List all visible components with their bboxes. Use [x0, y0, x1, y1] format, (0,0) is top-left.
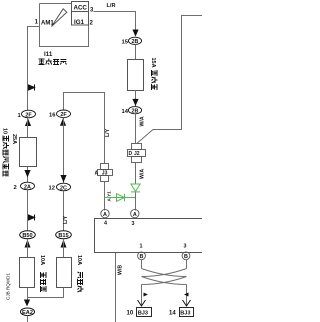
- up arrow into 1(2F): [25, 119, 31, 127]
- svg-text:CJB RQWD1: CJB RQWD1: [6, 273, 11, 300]
- ignition switch I11 outer box: [40, 4, 89, 47]
- direction flag right: [144, 293, 149, 297]
- wire 1(2F) to fuse: [27, 118, 29, 137]
- svg-text:D: D: [129, 151, 133, 157]
- svg-text:L/Y: L/Y: [63, 215, 69, 224]
- svg-text:W/A: W/A: [140, 116, 146, 126]
- svg-text:A/Y1: A/Y1: [107, 191, 112, 202]
- down arrow into 12(2C): [60, 175, 66, 183]
- fuse label 10A 室内灯: [76, 255, 84, 292]
- wire EA2 to bottom edge: [27, 316, 29, 322]
- fuse label 10A 主电源: [39, 255, 46, 292]
- wire A J3 to node A pin4: [104, 182, 106, 211]
- fuse 10A main box: [20, 258, 35, 288]
- svg-text:1: 1: [35, 20, 39, 26]
- svg-text:J2: J2: [134, 151, 140, 157]
- fuse 25A ignition box: [20, 138, 37, 167]
- svg-text:EA2: EA2: [22, 310, 33, 316]
- wire B50 to fuse: [27, 239, 29, 258]
- wire AM1 to 1(2F): [28, 27, 40, 111]
- diode D1 horizontal green: [105, 194, 136, 202]
- down arrow into 14(2B): [132, 99, 138, 106]
- svg-text:3: 3: [184, 244, 187, 250]
- svg-text:L/Y: L/Y: [105, 128, 111, 137]
- svg-text:A: A: [103, 212, 107, 218]
- wire fuse to 14(2B): [135, 90, 137, 106]
- svg-text:IG1: IG1: [74, 19, 85, 26]
- splice B15: [56, 231, 72, 239]
- svg-text:1: 1: [18, 113, 22, 119]
- down arrow into EA2: [24, 300, 30, 307]
- arrowhead into 10 BJ3: [138, 300, 146, 306]
- svg-text:1: 1: [140, 244, 143, 250]
- connector 2(2A): [14, 182, 35, 191]
- wire column3 rail to A J3: [104, 93, 106, 164]
- svg-text:14: 14: [122, 109, 129, 115]
- diode D2 vertical green: [131, 184, 140, 192]
- wire 15(2B) to fuse: [135, 44, 137, 59]
- svg-text:4: 4: [104, 221, 107, 227]
- svg-text:AM1: AM1: [41, 21, 54, 27]
- splice B50: [20, 231, 36, 239]
- svg-text:BJ3: BJ3: [138, 311, 148, 317]
- connector 12(2C): [49, 183, 71, 191]
- wire fuse to EA2 junction: [27, 288, 29, 301]
- connector 16(2F): [49, 110, 71, 119]
- svg-text:10: 10: [127, 311, 134, 317]
- connector D J2: [128, 144, 146, 163]
- wire B15 to fuse: [63, 239, 65, 258]
- svg-text:B50: B50: [22, 233, 32, 239]
- rail wire 16(2F) to column 3: [64, 93, 106, 111]
- fuse 10A room lamp box: [57, 258, 72, 288]
- ground EA2: [21, 308, 35, 316]
- svg-text:2: 2: [14, 185, 17, 191]
- connector 15(2B): [122, 37, 142, 45]
- wire fuse to 2(2A) with down arrow: [27, 167, 29, 182]
- svg-text:10A: 10A: [39, 255, 45, 265]
- svg-text:10A: 10A: [76, 255, 82, 265]
- node A pin 3 circle: [131, 209, 139, 217]
- svg-text:25A: 25A: [11, 134, 17, 144]
- svg-text:3: 3: [90, 8, 94, 14]
- svg-text:2F: 2F: [25, 112, 32, 118]
- svg-text:ACC: ACC: [74, 5, 88, 12]
- wire W/B from ECU to bottom: [115, 253, 117, 322]
- node B pin 3 circle: [182, 252, 190, 260]
- ignition switch contact box ACC/IG1: [72, 2, 89, 26]
- flow arrow flag on AM1 wire: [29, 85, 35, 91]
- twisted pair wires: [142, 260, 187, 305]
- node B pin 1 circle: [138, 252, 146, 260]
- svg-text:10: 10: [2, 128, 8, 134]
- wire 12(2C) to B15: [63, 191, 65, 231]
- svg-text:A: A: [133, 212, 137, 218]
- svg-text:2F: 2F: [60, 112, 67, 118]
- wire 16(2F) to 12(2C): [63, 118, 65, 183]
- svg-text:12: 12: [49, 186, 55, 192]
- flow arrow flag on wire: [29, 215, 35, 221]
- svg-text:2: 2: [90, 21, 94, 27]
- wire D J2 to node A pin3: [135, 163, 137, 211]
- svg-text:2B: 2B: [132, 39, 139, 45]
- up arrow into 16(2F): [60, 118, 66, 126]
- connector 14(2B): [122, 107, 142, 115]
- node A pin 4 circle: [101, 209, 109, 217]
- direction flag left: [184, 293, 189, 297]
- svg-text:15A: 15A: [150, 58, 156, 68]
- svg-text:L/R: L/R: [107, 3, 116, 9]
- switch lever: [52, 9, 67, 27]
- svg-text:16: 16: [49, 113, 56, 119]
- svg-text:2A: 2A: [24, 184, 31, 190]
- svg-text:2C: 2C: [60, 185, 67, 191]
- svg-text:3: 3: [132, 221, 135, 227]
- wire interior lamp fuse to EA2 junction: [28, 288, 64, 298]
- wire 14(2B) to D J2: [135, 114, 137, 143]
- down arrow into 15(2B): [132, 30, 138, 37]
- svg-text:A: A: [95, 171, 99, 177]
- svg-text:W/A: W/A: [140, 169, 146, 179]
- svg-text:15: 15: [122, 40, 129, 46]
- svg-text:BJ3: BJ3: [180, 311, 190, 317]
- fuse label 15A 点烟器: [150, 58, 158, 91]
- svg-text:B: B: [184, 254, 188, 260]
- connector A J3: [98, 164, 113, 182]
- up arrow into B50: [25, 240, 31, 248]
- fuse 15A cigarette box: [128, 60, 144, 91]
- svg-text:B15: B15: [58, 233, 68, 239]
- connector 1(2F): [18, 110, 36, 119]
- svg-text:B: B: [140, 254, 144, 260]
- svg-text:W/B: W/B: [118, 265, 124, 275]
- svg-text:J3: J3: [102, 171, 108, 177]
- wire from right edge to D J2 (corner + diagonal): [137, 16, 203, 144]
- wire 2(2A) to B50: [27, 190, 29, 231]
- fuse label 25A: [11, 134, 17, 144]
- component name 点火开关: [39, 59, 67, 65]
- arrowhead into 14 BJ3: [183, 300, 191, 306]
- up arrow into B15: [61, 240, 67, 248]
- wire L/R from ACC: [94, 12, 136, 32]
- ECU box: [95, 219, 205, 253]
- svg-text:I11: I11: [44, 51, 53, 58]
- svg-text:2B: 2B: [132, 109, 139, 115]
- svg-text:14: 14: [169, 311, 176, 317]
- fuse label 10点火开关电源: [2, 128, 10, 177]
